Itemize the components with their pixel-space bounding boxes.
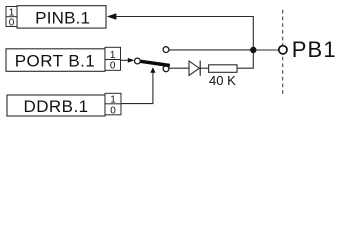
wire: switch top contact to node <box>169 49 253 51</box>
wire: switch bottom contact to diode <box>169 67 189 69</box>
wire: PORT B.1 to switch pole <box>121 59 129 61</box>
svg-text:0: 0 <box>110 105 116 116</box>
wire: resistor right up to node <box>237 50 253 68</box>
svg-text:1: 1 <box>110 95 116 106</box>
PORT B.1 bit-value box (1/0) <box>105 47 121 70</box>
switch lever <box>141 61 170 65</box>
diode cathode bar <box>199 61 201 76</box>
svg-text:0: 0 <box>110 61 116 72</box>
node junction dot <box>250 47 256 53</box>
wire: node up to PINB.1 (horizontal + corner down) <box>116 17 253 51</box>
wire: diode to resistor <box>200 67 208 69</box>
arrowhead into PINB.1 <box>107 13 117 19</box>
arrowhead at switch pole <box>128 58 135 63</box>
svg-text:DDRB.1: DDRB.1 <box>23 97 88 116</box>
pin pad PB1 (open circle) <box>279 46 287 54</box>
control arrowhead (up, at lever) <box>150 67 155 73</box>
switch pole contact <box>135 58 141 64</box>
svg-text:PINB.1: PINB.1 <box>35 9 90 28</box>
register box PINB.1 <box>17 6 106 28</box>
svg-text:PORT B.1: PORT B.1 <box>15 52 95 71</box>
register box PORT B.1 <box>6 49 105 72</box>
wire: node to PB1 pad <box>253 49 279 51</box>
chip boundary dashed line <box>282 10 284 97</box>
svg-text:0: 0 <box>9 18 15 29</box>
svg-text:40 K: 40 K <box>209 73 236 88</box>
diode (clamp to pin) triangle <box>189 61 199 75</box>
svg-text:1: 1 <box>110 50 116 61</box>
DDRB.1 bit-value box (1/0) <box>105 93 121 115</box>
switch top contact <box>163 47 169 53</box>
PINB.1 bit-value box (1/0) <box>6 7 17 27</box>
resistor 40K body <box>209 65 237 73</box>
register box DDRB.1 <box>7 95 105 116</box>
svg-text:PB1: PB1 <box>292 37 337 62</box>
switch bottom contact <box>163 66 169 72</box>
wire: DDRB.1 to lever control (right then up) <box>121 73 153 104</box>
